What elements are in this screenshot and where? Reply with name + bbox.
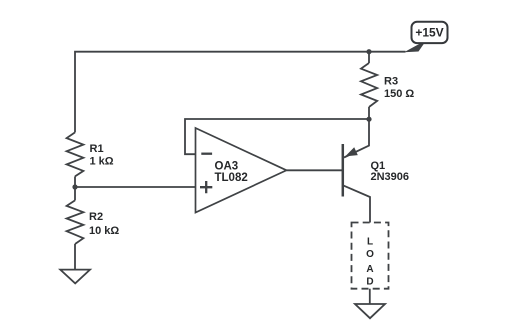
svg-text:2N3906: 2N3906 — [371, 171, 410, 183]
svg-text:150 Ω: 150 Ω — [384, 88, 414, 100]
svg-text:R3: R3 — [384, 76, 398, 88]
svg-text:L: L — [367, 237, 373, 248]
svg-text:D: D — [366, 276, 373, 287]
svg-text:Q1: Q1 — [371, 160, 386, 172]
svg-text:TL082: TL082 — [215, 172, 248, 184]
svg-text:R1: R1 — [90, 143, 104, 155]
svg-text:A: A — [366, 264, 373, 275]
svg-text:1 kΩ: 1 kΩ — [90, 155, 114, 167]
svg-text:10 kΩ: 10 kΩ — [89, 225, 119, 237]
svg-text:R2: R2 — [89, 211, 103, 223]
svg-text:OA3: OA3 — [215, 161, 239, 173]
svg-text:+15V: +15V — [415, 26, 443, 40]
svg-text:O: O — [366, 249, 374, 260]
